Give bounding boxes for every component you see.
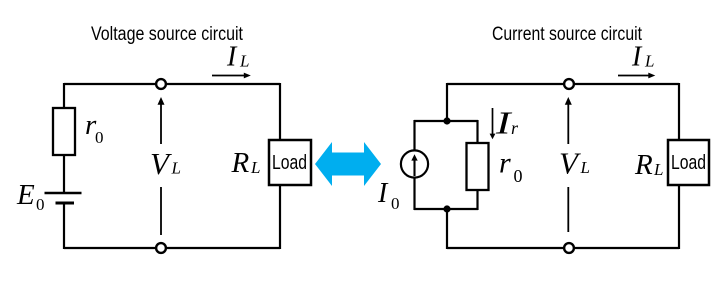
junction dot top	[443, 117, 450, 124]
svg-text:L: L	[250, 158, 260, 177]
resistor r0 (right circuit)	[467, 143, 489, 190]
load box RL (left circuit)	[269, 140, 311, 185]
current source arrow	[413, 160, 415, 177]
arrow VL (right circuit)	[567, 103, 569, 144]
svg-text:r: r	[499, 147, 511, 180]
wire: left circuit top rail	[64, 83, 280, 85]
svg-text:L: L	[580, 158, 590, 177]
svg-text:L: L	[239, 52, 249, 71]
svg-text:0: 0	[36, 195, 45, 214]
svg-text:0: 0	[514, 166, 523, 186]
arrow IL (left circuit)	[212, 75, 245, 77]
svg-text:V: V	[559, 146, 581, 181]
svg-text:I: I	[377, 178, 389, 209]
svg-text:r: r	[511, 118, 519, 138]
wire: stub from top rail down to parallel pair	[446, 83, 448, 121]
blue equivalence double arrow	[315, 142, 381, 186]
load box RL (right circuit)	[668, 140, 709, 185]
node: bottom terminal (left circuit)	[156, 243, 166, 253]
svg-text:V: V	[150, 146, 172, 181]
arrow IL (right circuit)	[618, 75, 650, 77]
wire: inner loop bottom	[414, 208, 478, 210]
svg-text:E: E	[16, 179, 35, 211]
svg-text:Load: Load	[272, 152, 307, 174]
svg-text:R: R	[634, 149, 653, 181]
arrow Ir	[492, 108, 494, 135]
svg-text:L: L	[653, 160, 663, 179]
node: bottom terminal (right circuit)	[564, 243, 574, 253]
wire: left circuit bottom rail	[64, 247, 280, 249]
svg-text:0: 0	[391, 194, 400, 213]
svg-text:Load: Load	[671, 152, 706, 174]
resistor r0 (left circuit)	[53, 108, 75, 155]
wire: right circuit top rail	[447, 83, 679, 85]
wire: left circuit right wire upper segment	[279, 83, 281, 141]
svg-text:L: L	[644, 52, 654, 71]
wire: right circuit bottom rail	[447, 247, 679, 249]
svg-text:I: I	[226, 42, 238, 73]
wire: left circuit left wire upper segment	[63, 83, 65, 109]
svg-text:Current source circuit: Current source circuit	[492, 24, 643, 45]
svg-text:L: L	[171, 159, 181, 178]
node: top terminal (right circuit)	[564, 79, 574, 89]
wire: r0 branch upper (right circuit)	[476, 120, 478, 144]
battery E0 short plate	[56, 202, 75, 205]
wire: battery to bottom rail	[63, 203, 65, 249]
svg-text:R: R	[231, 147, 250, 179]
wire: right circuit right wire upper segment	[678, 83, 680, 141]
svg-text:I: I	[631, 42, 643, 73]
junction dot bottom	[443, 205, 450, 212]
svg-text:0: 0	[95, 128, 104, 147]
wire: r0 branch lower (right circuit)	[476, 190, 478, 210]
wire: stub from parallel pair down to bottom rail	[446, 209, 448, 249]
wire: load box to bottom rail (left)	[279, 185, 281, 249]
wire: current source branch upper	[413, 120, 415, 150]
battery E0 long plate	[45, 192, 82, 195]
wire: load box to bottom rail (right)	[678, 185, 680, 249]
node: top terminal (left circuit)	[156, 79, 166, 89]
wire: resistor bottom to battery	[63, 155, 65, 193]
wire: current source branch lower	[413, 178, 415, 210]
arrow VL (left circuit)	[160, 103, 162, 144]
svg-text:Voltage source circuit: Voltage source circuit	[91, 24, 244, 45]
current source I0 circle	[401, 150, 428, 177]
wire: inner loop top	[414, 120, 478, 122]
svg-text:I: I	[495, 105, 513, 141]
